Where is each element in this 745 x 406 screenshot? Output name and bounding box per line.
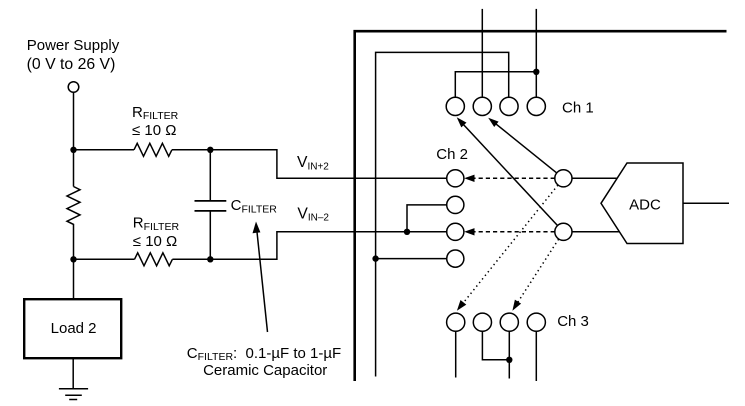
svg-text:RFILTER: RFILTER	[132, 104, 179, 122]
junction on VIN-2 net	[404, 229, 410, 235]
lead: Ch3 pin3 down	[508, 331, 510, 378]
svg-text:CFILTER: 0.1-µF to 1-µF: CFILTER: 0.1-µF to 1-µF	[187, 345, 341, 363]
wire: mux pole2 to ADC	[572, 231, 619, 233]
junction on internal bus	[372, 255, 378, 261]
svg-text:Ch 2: Ch 2	[436, 146, 468, 163]
lead: Ch1 pin2 to top	[481, 9, 483, 97]
svg-text:Load 2: Load 2	[51, 320, 97, 337]
wire: node D to VIN-2 pin	[210, 232, 446, 259]
Ch3 pin4	[527, 313, 545, 331]
svg-text:≤ 10 Ω: ≤ 10 Ω	[133, 233, 177, 250]
Ch2 pin4	[447, 250, 464, 267]
wire: Ch1 pin1 to top junction	[455, 72, 536, 98]
Ch1 pin3	[500, 97, 518, 115]
solid path: mux pole2 to Ch1 pin1	[462, 123, 557, 225]
lead: Ch3 pin2 down to bracket	[482, 331, 509, 360]
capacitor CFILTER plates	[195, 201, 227, 211]
Ch3 pin1	[447, 313, 465, 331]
Ch1 pin1	[446, 97, 464, 115]
junction on Ch3 pin3 lead	[506, 357, 512, 363]
wire: mux pole1 to ADC	[572, 177, 617, 179]
Load 2 box	[24, 299, 121, 358]
dashed path: mux pole1 to Ch2 pin1	[466, 177, 555, 179]
lead: Ch1 pin4 to top	[535, 9, 537, 97]
resistor RFILTER2	[135, 253, 173, 266]
Ch2 pin2	[447, 196, 464, 213]
mux switch pole 2	[555, 223, 572, 240]
svg-text:VIN+2: VIN+2	[297, 154, 329, 172]
Ch2 pin1	[447, 170, 464, 187]
solid path: mux pole1 to Ch1 pin2	[494, 123, 556, 173]
svg-text:RFILTER: RFILTER	[133, 215, 180, 233]
capacitor CFILTER bottom lead	[209, 211, 211, 259]
internal bus wire (left)	[376, 52, 509, 376]
ground	[59, 388, 88, 390]
resistor RFILTER1	[134, 143, 172, 156]
wire: node B to VIN+2 pin	[210, 150, 446, 179]
svg-text:(0 V to 26 V): (0 V to 26 V)	[27, 56, 116, 73]
dotted path: mux pole1 to Ch3 pin1	[461, 185, 558, 306]
svg-text:Ceramic Capacitor: Ceramic Capacitor	[203, 362, 327, 379]
svg-text:CFILTER: CFILTER	[231, 197, 278, 215]
wire: ADC output	[683, 202, 729, 204]
wire: node A to RFILTER1	[74, 149, 135, 151]
node D junction	[207, 256, 213, 262]
Ch3 pin3	[500, 313, 518, 331]
wire: node C to RFILTER2	[74, 258, 135, 260]
svg-text:≤ 10 Ω: ≤ 10 Ω	[132, 122, 176, 139]
junction at Ch1 pin4 lead	[533, 69, 539, 75]
node B junction	[207, 147, 213, 153]
annotation arrow to CFILTER	[257, 231, 268, 332]
load resistor (vertical)	[67, 150, 80, 259]
mux switch pole 1	[555, 170, 572, 187]
node A junction	[70, 147, 76, 153]
svg-text:VIN–2: VIN–2	[297, 205, 329, 223]
wire: Ch2 pin4 to internal bus	[376, 258, 447, 260]
device box outline	[355, 31, 727, 381]
Ch1 pin4	[527, 97, 545, 115]
Ch2 pin3	[447, 223, 464, 240]
wire: node C to Load 2	[73, 259, 75, 298]
svg-text:Power Supply: Power Supply	[27, 37, 120, 54]
dashed path: mux pole2 to Ch2 pin3	[466, 231, 555, 233]
svg-text:ADC: ADC	[629, 197, 661, 214]
wire: power supply to node A	[73, 92, 75, 150]
Ch3 pin2	[473, 313, 491, 331]
power supply terminal	[68, 82, 79, 93]
wire: Ch2 pin2 hook to VIN-2 net	[407, 205, 447, 232]
svg-text:Ch 3: Ch 3	[557, 313, 589, 330]
lead: Ch3 pin4 down	[535, 331, 537, 381]
wire: RFILTER1 to node B	[172, 149, 210, 151]
dotted path: mux pole2 to Ch3 pin3	[515, 239, 558, 306]
ADC block	[601, 163, 683, 244]
lead: Ch3 pin1 down	[455, 331, 457, 377]
capacitor CFILTER top lead	[209, 150, 211, 201]
Ch1 pin2	[473, 97, 491, 115]
svg-text:Ch 1: Ch 1	[562, 99, 594, 116]
wire: RFILTER2 to node D	[172, 258, 210, 260]
node C junction	[70, 256, 76, 262]
wire: Load 2 to ground	[72, 358, 74, 388]
